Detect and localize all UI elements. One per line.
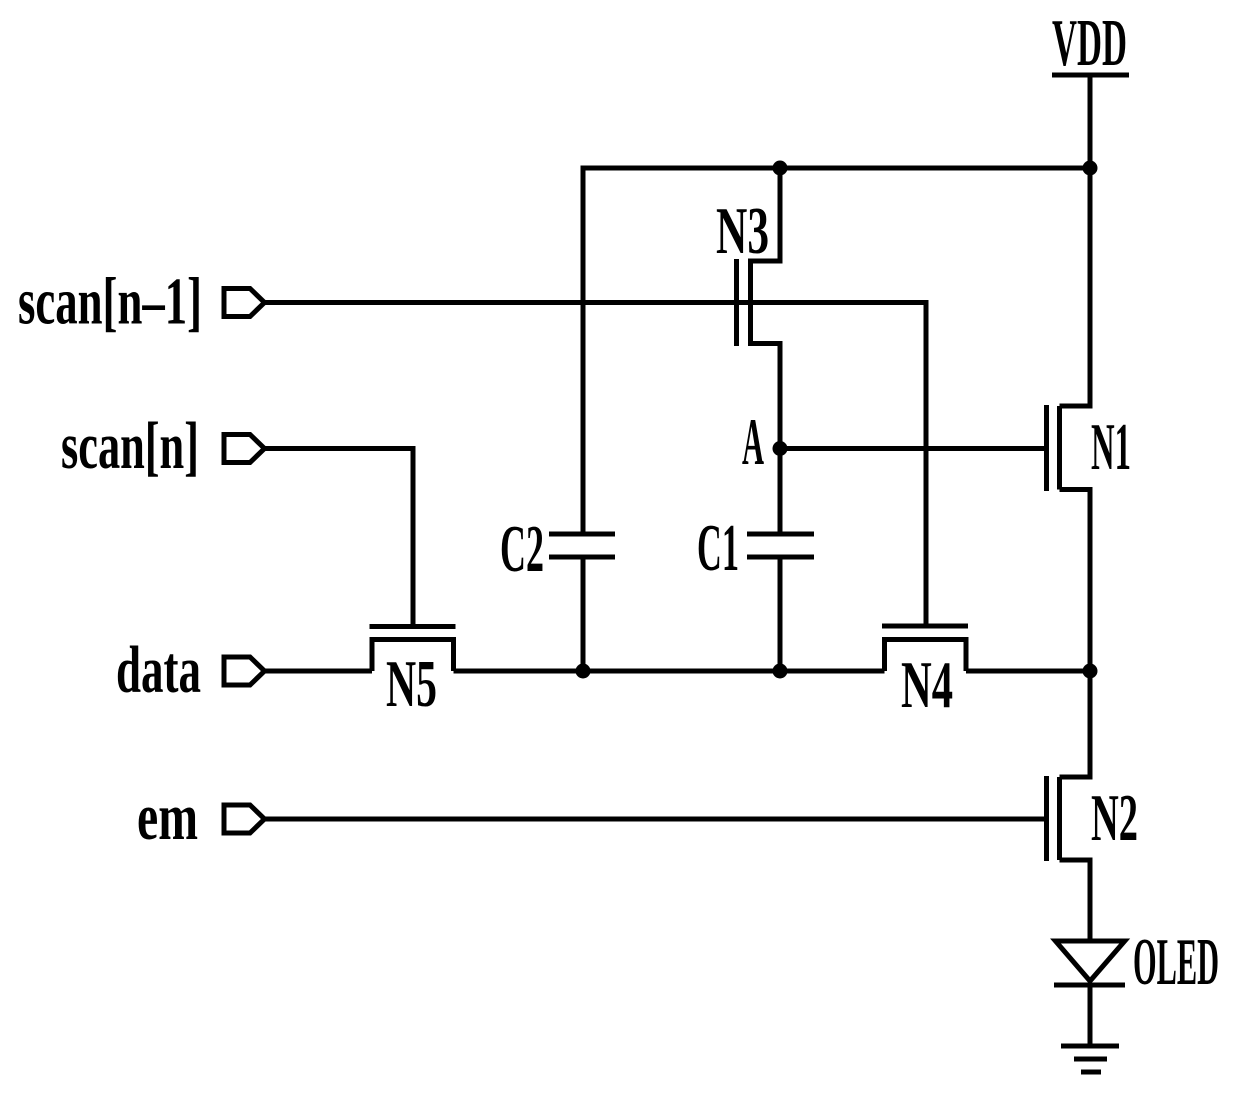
svg-text:C2: C2 (500, 512, 544, 586)
svg-text:scan[n]: scan[n] (61, 409, 199, 483)
svg-text:N2: N2 (1091, 781, 1138, 855)
svg-text:em: em (137, 780, 198, 854)
svg-text:C1: C1 (697, 511, 739, 585)
svg-text:N5: N5 (386, 647, 437, 721)
svg-text:OLED: OLED (1133, 925, 1219, 999)
svg-text:N3: N3 (716, 194, 769, 268)
svg-text:N4: N4 (901, 648, 953, 722)
svg-text:data: data (116, 633, 201, 707)
svg-text:A: A (742, 405, 764, 479)
svg-text:VDD: VDD (1052, 6, 1127, 80)
svg-text:N1: N1 (1091, 410, 1131, 484)
svg-text:scan[n–1]: scan[n–1] (18, 265, 202, 339)
